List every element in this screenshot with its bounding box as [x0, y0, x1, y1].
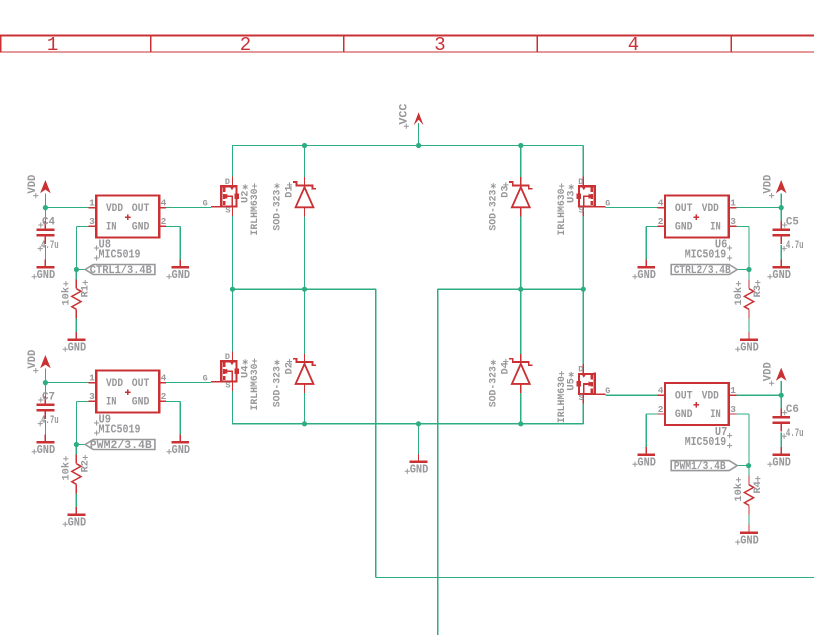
- svg-text:1: 1: [89, 197, 95, 208]
- svg-text:MIC5019: MIC5019: [99, 423, 141, 436]
- svg-text:G: G: [203, 374, 208, 384]
- svg-text:OUT: OUT: [675, 390, 693, 402]
- svg-text:GND: GND: [637, 457, 656, 470]
- svg-text:3: 3: [730, 216, 736, 227]
- svg-text:D: D: [225, 352, 230, 362]
- svg-text:IN: IN: [710, 409, 721, 421]
- svg-text:10k: 10k: [733, 483, 745, 502]
- svg-text:PWM1/3.4B: PWM1/3.4B: [674, 461, 726, 473]
- svg-text:SOD-323: SOD-323: [271, 190, 283, 231]
- svg-text:S: S: [225, 380, 230, 390]
- svg-text:3: 3: [730, 404, 736, 415]
- svg-text:4.7u: 4.7u: [786, 240, 804, 252]
- svg-text:OUT: OUT: [132, 378, 150, 390]
- svg-text:S: S: [579, 205, 584, 215]
- svg-text:4.7u: 4.7u: [786, 428, 804, 440]
- svg-text:D: D: [578, 177, 583, 187]
- svg-text:IN: IN: [106, 222, 117, 234]
- svg-text:3: 3: [89, 216, 95, 227]
- svg-text:D: D: [225, 177, 230, 187]
- svg-text:4.7u: 4.7u: [41, 415, 59, 427]
- svg-text:VDD: VDD: [763, 174, 775, 193]
- svg-text:S: S: [225, 205, 230, 215]
- svg-text:C5: C5: [786, 217, 799, 229]
- svg-text:SOD-323: SOD-323: [488, 190, 500, 231]
- svg-text:VDD: VDD: [27, 174, 39, 193]
- svg-text:GND: GND: [675, 409, 693, 421]
- svg-text:GND: GND: [740, 342, 759, 355]
- svg-text:VCC: VCC: [399, 103, 411, 124]
- svg-text:4.7u: 4.7u: [41, 240, 59, 252]
- svg-text:2: 2: [161, 391, 167, 402]
- svg-text:GND: GND: [675, 222, 693, 234]
- svg-text:R2: R2: [80, 460, 92, 473]
- svg-text:VDD: VDD: [702, 203, 719, 215]
- svg-text:4: 4: [658, 385, 664, 396]
- svg-text:SOD-323: SOD-323: [271, 366, 283, 407]
- svg-text:10k: 10k: [61, 287, 73, 306]
- svg-text:GND: GND: [740, 535, 759, 548]
- svg-text:1: 1: [47, 34, 58, 56]
- svg-text:C6: C6: [786, 404, 799, 416]
- svg-text:OUT: OUT: [675, 203, 693, 215]
- svg-text:GND: GND: [172, 444, 191, 457]
- svg-text:CTRL1/3.4B: CTRL1/3.4B: [90, 265, 152, 277]
- svg-text:GND: GND: [772, 269, 791, 282]
- svg-text:2: 2: [658, 404, 664, 415]
- svg-text:G: G: [605, 199, 610, 209]
- svg-text:3: 3: [434, 34, 445, 56]
- svg-text:4: 4: [658, 197, 664, 208]
- svg-text:C4: C4: [42, 217, 55, 229]
- svg-text:IRLHM630: IRLHM630: [249, 364, 261, 411]
- svg-text:R3: R3: [752, 285, 764, 298]
- svg-text:GND: GND: [132, 397, 150, 409]
- svg-text:PWM2/3.4B: PWM2/3.4B: [90, 440, 153, 452]
- svg-text:C7: C7: [42, 392, 55, 404]
- svg-text:R1: R1: [80, 285, 92, 298]
- svg-text:GND: GND: [37, 444, 56, 457]
- svg-text:2: 2: [161, 216, 167, 227]
- svg-text:IN: IN: [710, 222, 721, 234]
- svg-text:GND: GND: [132, 222, 150, 234]
- svg-text:4: 4: [628, 34, 639, 56]
- svg-text:GND: GND: [37, 269, 56, 282]
- svg-text:2: 2: [240, 34, 251, 56]
- svg-text:4: 4: [161, 372, 167, 383]
- svg-text:VDD: VDD: [702, 390, 719, 402]
- svg-text:MIC5019: MIC5019: [99, 248, 141, 261]
- svg-text:IRLHM630: IRLHM630: [249, 189, 261, 236]
- svg-text:GND: GND: [68, 342, 87, 355]
- svg-text:4: 4: [161, 197, 167, 208]
- svg-text:MIC5019: MIC5019: [685, 436, 727, 449]
- svg-text:R4: R4: [752, 481, 764, 494]
- svg-text:G: G: [605, 386, 610, 396]
- svg-text:IRLHM630: IRLHM630: [556, 189, 568, 236]
- svg-text:D: D: [578, 365, 583, 375]
- svg-text:1: 1: [89, 372, 95, 383]
- svg-text:GND: GND: [410, 464, 429, 477]
- svg-text:GND: GND: [772, 457, 791, 470]
- svg-text:GND: GND: [172, 269, 191, 282]
- svg-text:G: G: [203, 199, 208, 209]
- svg-text:GND: GND: [68, 517, 87, 530]
- svg-text:IRLHM630: IRLHM630: [556, 376, 568, 423]
- svg-text:OUT: OUT: [132, 203, 150, 215]
- svg-text:VDD: VDD: [27, 349, 39, 368]
- svg-text:SOD-323: SOD-323: [488, 366, 500, 407]
- svg-text:S: S: [579, 393, 584, 403]
- svg-text:1: 1: [730, 385, 736, 396]
- svg-text:1: 1: [730, 197, 736, 208]
- svg-text:VDD: VDD: [106, 203, 123, 215]
- svg-text:VDD: VDD: [763, 362, 775, 381]
- svg-text:3: 3: [89, 391, 95, 402]
- svg-text:10k: 10k: [733, 287, 745, 306]
- svg-text:IN: IN: [106, 397, 117, 409]
- svg-text:10k: 10k: [61, 462, 73, 481]
- svg-text:GND: GND: [637, 269, 656, 282]
- svg-text:VDD: VDD: [106, 378, 123, 390]
- svg-text:CTRL2/3.4B: CTRL2/3.4B: [674, 265, 731, 277]
- svg-text:2: 2: [658, 216, 664, 227]
- svg-text:MIC5019: MIC5019: [685, 248, 727, 261]
